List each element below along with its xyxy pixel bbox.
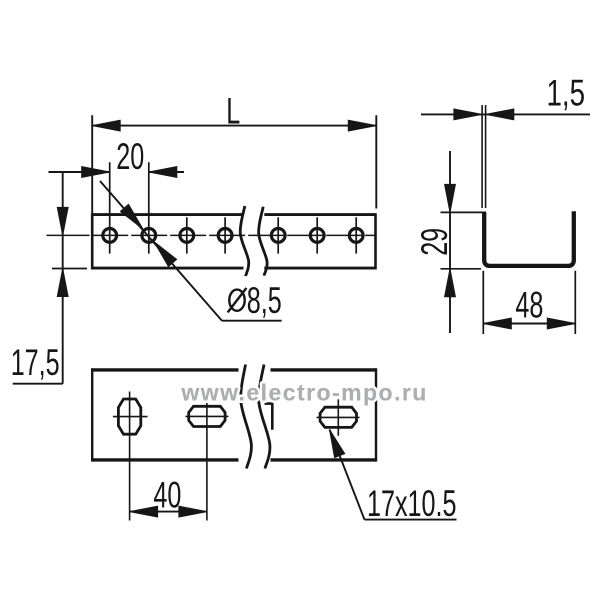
hole 3 [180, 229, 194, 243]
svg-text:48: 48 [515, 283, 543, 325]
hole 7 [349, 229, 363, 243]
leader underline [365, 519, 457, 521]
dimension 29 line [449, 151, 451, 333]
hole 6 [310, 229, 324, 243]
slot B crosshair [185, 415, 228, 417]
plan right edge [375, 368, 377, 461]
plan left edge [91, 368, 93, 461]
hole crosshair verticals [109, 162, 111, 253]
svg-text:17x10.5: 17x10.5 [367, 482, 457, 524]
hole 1 [103, 229, 117, 243]
svg-text:www.electro-mpo.ru: www.electro-mpo.ru [180, 379, 427, 405]
extension line bottom of channel [441, 268, 482, 270]
wire: dimension L line [92, 125, 376, 127]
strip right edge [374, 213, 377, 269]
wire: L right extension line [375, 115, 377, 208]
extension line top of channel [441, 211, 487, 213]
plan break left curve [241, 365, 252, 469]
hole 2 [142, 229, 156, 243]
wall thickness double line [481, 105, 483, 208]
extension tick bottom of strip [52, 268, 87, 270]
svg-text:1,5: 1,5 [547, 72, 586, 114]
dimension 40 line [130, 511, 207, 513]
leader underline [222, 320, 282, 322]
plan break right curve [259, 365, 270, 469]
slot B horizontal oblong hole [189, 406, 225, 426]
svg-text:40: 40 [153, 473, 181, 515]
svg-text:20: 20 [116, 135, 144, 177]
dimension 1,5 line [421, 113, 590, 115]
slot A vertical oblong hole [118, 399, 140, 434]
svg-text:8,5: 8,5 [247, 279, 282, 321]
dimension 20 line left part [49, 171, 110, 173]
plan bottom edge [92, 458, 238, 461]
svg-text:L: L [226, 90, 240, 132]
hole 5 [271, 229, 285, 243]
dimension 48 extension lines [482, 271, 484, 334]
dimension 48 line [483, 323, 575, 325]
dimension 20 line right part [149, 171, 184, 173]
hole 4 [218, 229, 232, 243]
slot C crosshair [317, 416, 360, 418]
slot C horizontal oblong hole [320, 407, 356, 427]
centre line through holes [47, 234, 90, 236]
dimension 17,5 vertical line [62, 172, 64, 384]
slot A crosshair [113, 416, 148, 418]
channel profile [484, 211, 574, 266]
break line right curve [259, 207, 268, 276]
leader line for hole diameter [100, 181, 222, 321]
leader line for slot size [330, 430, 365, 520]
dimension 17,5 underline [13, 383, 63, 385]
strip left edge [91, 213, 94, 269]
diameter symbol [229, 290, 244, 311]
break line left curve [240, 206, 249, 276]
strip outline bottom edge [92, 267, 243, 270]
wire: L left extension line [91, 115, 93, 213]
plan top edge [92, 368, 238, 371]
strip outline top edge [92, 213, 243, 216]
torn hole stub at break [265, 404, 273, 430]
svg-text:29: 29 [413, 228, 455, 256]
svg-text:17,5: 17,5 [11, 341, 60, 383]
